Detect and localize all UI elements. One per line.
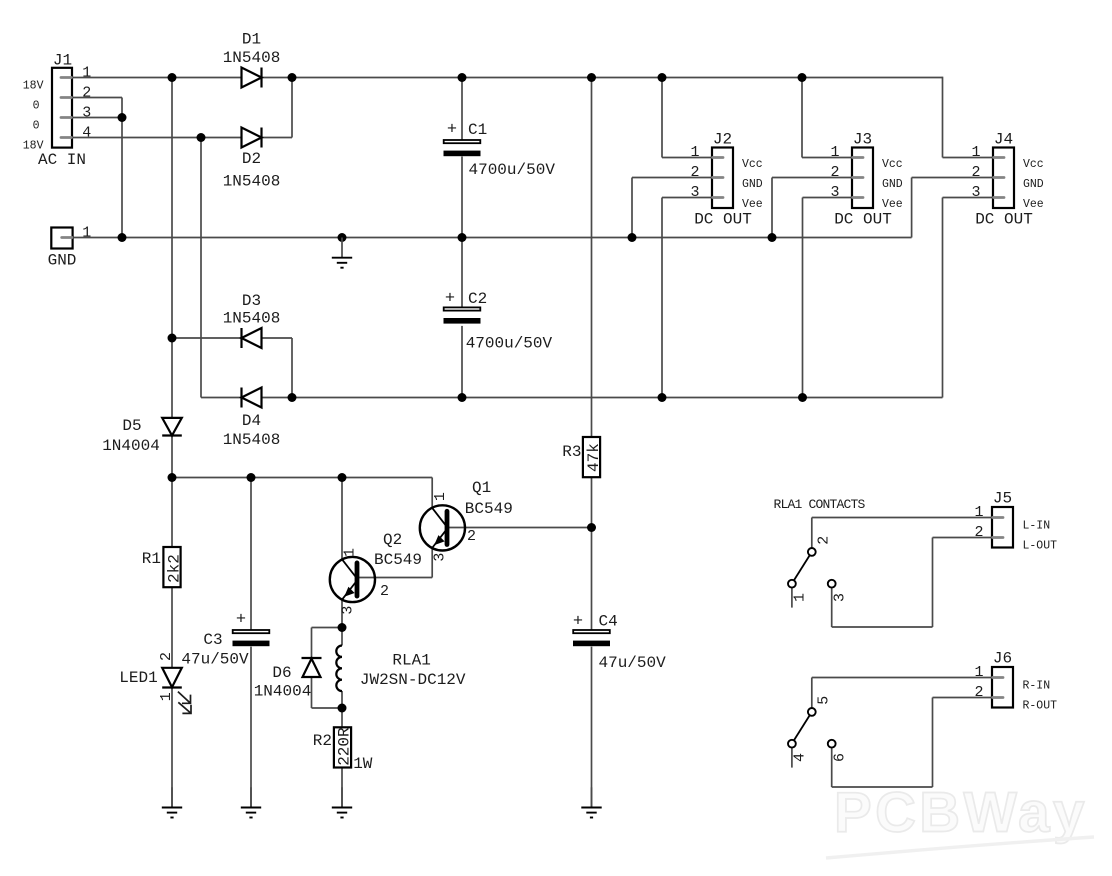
svg-text:1W: 1W <box>353 755 373 773</box>
wire contact 3 to J5.2 <box>831 588 833 627</box>
svg-text:3: 3 <box>82 104 91 121</box>
diode D5 1N4004 <box>102 417 182 455</box>
wire C1 top <box>461 78 463 141</box>
wire D2 to node after D1 <box>262 137 293 139</box>
svg-text:0: 0 <box>33 120 40 133</box>
svg-text:GND: GND <box>742 178 763 191</box>
svg-text:R2: R2 <box>313 732 332 750</box>
svg-text:C1: C1 <box>468 121 487 139</box>
relay contact switch L pole 1 <box>788 580 796 588</box>
node ctl R1 <box>168 473 177 482</box>
svg-text:GND: GND <box>48 252 77 270</box>
node relay top <box>338 623 347 632</box>
svg-text:2: 2 <box>830 164 839 181</box>
transistor Q1 BC549 <box>420 479 513 562</box>
svg-text:Vee: Vee <box>882 198 903 211</box>
wire C4 bottom to ground <box>591 647 593 808</box>
svg-text:2: 2 <box>690 164 699 181</box>
svg-text:R1: R1 <box>142 550 161 568</box>
svg-text:+: + <box>236 611 246 630</box>
wire C2 top from GND bus <box>461 238 463 308</box>
wire Q1.3 to Q2.2 <box>357 577 432 579</box>
svg-text:1: 1 <box>690 144 699 161</box>
svg-text:BC549: BC549 <box>465 500 513 518</box>
svg-text:4: 4 <box>82 124 91 141</box>
svg-text:DC OUT: DC OUT <box>975 211 1033 229</box>
resistor R3 47k <box>562 437 603 477</box>
svg-text:1: 1 <box>974 664 983 681</box>
node R3/C4 <box>587 523 596 532</box>
svg-text:+: + <box>447 121 457 140</box>
node GND symbol <box>338 233 347 242</box>
resistor R1 2k2 <box>142 547 184 587</box>
svg-text:L-IN: L-IN <box>1023 520 1051 533</box>
svg-text:6: 6 <box>832 753 849 762</box>
svg-text:5: 5 <box>815 696 832 705</box>
svg-text:D6: D6 <box>272 664 291 682</box>
svg-text:D5: D5 <box>122 417 141 435</box>
wire C1 bottom to GND bus <box>461 157 463 238</box>
svg-text:GND: GND <box>1023 178 1044 191</box>
svg-text:3: 3 <box>971 184 980 201</box>
svg-text:1N5408: 1N5408 <box>223 310 281 328</box>
svg-text:Q2: Q2 <box>383 531 402 549</box>
wire D5 cathode to control rail <box>171 436 173 478</box>
svg-text:1: 1 <box>432 492 449 501</box>
svg-text:47u/50V: 47u/50V <box>599 654 667 672</box>
svg-text:4700u/50V: 4700u/50V <box>466 335 553 353</box>
svg-text:J5: J5 <box>993 490 1012 508</box>
svg-text:2k2: 2k2 <box>166 554 184 583</box>
diode D1 1N5408 <box>223 31 281 88</box>
svg-text:2: 2 <box>971 164 980 181</box>
wire D3 row <box>172 337 242 339</box>
svg-text:0: 0 <box>33 100 40 113</box>
wire Q1 emitter down <box>431 548 433 577</box>
wire J1.2 to junction <box>72 97 122 99</box>
svg-text:+: + <box>573 613 583 632</box>
node relay bottom <box>338 704 347 713</box>
svg-text:D3: D3 <box>242 292 261 310</box>
svg-text:1: 1 <box>791 593 808 602</box>
node D1-D2 <box>288 73 297 82</box>
PCBWay watermark <box>826 781 1094 859</box>
wire C2 bottom to Vee bus <box>461 326 463 398</box>
wire contact 1 lead <box>791 588 793 608</box>
svg-text:R-IN: R-IN <box>1023 680 1051 693</box>
svg-text:JW2SN-DC12V: JW2SN-DC12V <box>360 671 466 689</box>
ground under C4 <box>581 787 601 817</box>
svg-text:2: 2 <box>467 528 476 545</box>
wire D6 top link <box>312 627 343 629</box>
wire contact 4 lead <box>791 748 793 768</box>
wire J2 GND to bus <box>632 177 712 179</box>
wire raw rail x=591 to R3 <box>591 78 593 438</box>
node D4 <box>288 393 297 402</box>
wire J4 Vcc feed <box>942 77 944 158</box>
svg-text:1N5408: 1N5408 <box>223 431 281 449</box>
svg-text:4: 4 <box>791 753 808 762</box>
wire R2 bottom to ground <box>341 768 343 808</box>
connector GND <box>48 224 92 269</box>
svg-text:47u/50V: 47u/50V <box>181 651 249 669</box>
wire J3 Vcc feed <box>801 78 803 158</box>
wire Vee bus left to D4 <box>201 397 242 399</box>
ground under C3 <box>241 787 261 817</box>
svg-text:220R: 220R <box>335 727 353 766</box>
node J2 Vee <box>658 393 667 402</box>
wire relay node to R2 <box>341 708 343 727</box>
svg-text:1N4004: 1N4004 <box>102 437 160 455</box>
diode D4 1N5408 <box>223 388 281 450</box>
wire J3 GND to bus <box>772 177 852 179</box>
svg-text:D4: D4 <box>242 412 261 430</box>
svg-text:1N4004: 1N4004 <box>254 683 312 701</box>
wire J6.1 to contact 5 <box>812 677 992 679</box>
ground at GND bus <box>332 238 352 268</box>
svg-text:C4: C4 <box>599 613 618 631</box>
svg-text:3: 3 <box>830 184 839 201</box>
svg-text:1: 1 <box>830 144 839 161</box>
svg-text:R-OUT: R-OUT <box>1023 700 1058 713</box>
wire Q2 pin1 feed down <box>341 478 343 560</box>
wire C3 top <box>250 478 252 631</box>
wire R1 top <box>171 478 173 548</box>
node ctl Q2 <box>338 473 347 482</box>
svg-text:Q1: Q1 <box>472 479 491 497</box>
svg-text:2: 2 <box>82 84 91 101</box>
diode D6 1N4004 <box>254 658 322 701</box>
svg-text:3: 3 <box>432 553 449 562</box>
wire C3 bottom to ground <box>250 647 252 808</box>
wire top +rail D1 to J4 corner <box>262 77 943 79</box>
svg-text:2: 2 <box>380 583 389 600</box>
svg-text:1: 1 <box>971 144 980 161</box>
wire R1 to LED1 <box>171 587 173 668</box>
svg-text:3: 3 <box>340 606 357 615</box>
svg-text:DC OUT: DC OUT <box>694 211 752 229</box>
svg-text:J1: J1 <box>53 51 72 69</box>
capacitor C2 4700u/50V <box>444 290 553 353</box>
wire contact arm L <box>794 555 810 580</box>
svg-text:1N5408: 1N5408 <box>223 173 281 191</box>
svg-text:R3: R3 <box>562 443 581 461</box>
wire contact 6 to J6.2 <box>831 748 833 787</box>
wire LED1 to ground <box>171 688 173 808</box>
node J2 Vcc <box>658 73 667 82</box>
wire Vee bus D4 to J4 <box>262 397 943 399</box>
svg-text:LED1: LED1 <box>119 669 157 687</box>
node J1.2-3 <box>118 113 127 122</box>
connector J1 AC IN <box>23 51 92 169</box>
wire Q1 pin2 to R3 node <box>448 527 592 529</box>
svg-text:D1: D1 <box>242 31 261 49</box>
relay contact switch R pole 6 <box>828 740 836 748</box>
svg-text:2: 2 <box>974 524 983 541</box>
svg-text:1: 1 <box>974 504 983 521</box>
wire Q1 base feed down <box>431 478 433 508</box>
svg-text:47k: 47k <box>585 443 603 472</box>
svg-text:18V: 18V <box>23 80 44 93</box>
relay contact switch R pole 4 <box>788 740 796 748</box>
wire J5.1 to contact 2 <box>812 517 992 519</box>
node C1/C2 <box>458 233 467 242</box>
svg-text:J6: J6 <box>993 650 1012 668</box>
wire D3 to D4 node <box>262 337 293 339</box>
node ctl C3 <box>247 473 256 482</box>
svg-text:RLA1 CONTACTS: RLA1 CONTACTS <box>774 497 866 512</box>
transistor Q2 BC549 <box>330 531 422 615</box>
svg-text:PCBWay: PCBWay <box>834 781 1088 844</box>
svg-text:J4: J4 <box>994 131 1013 149</box>
wire J1.3 to junction <box>72 117 122 119</box>
node raw rail <box>587 73 596 82</box>
connector J3 DC OUT <box>830 131 902 229</box>
capacitor C1 4700u/50V <box>444 121 556 180</box>
capacitor C4 47u/50V <box>573 613 666 673</box>
ground under LED1 <box>162 787 182 817</box>
svg-text:1: 1 <box>82 64 91 81</box>
wire contact arm R <box>794 715 810 740</box>
svg-text:D2: D2 <box>242 150 261 168</box>
wire left rail x=172 down to D5 <box>171 78 173 418</box>
svg-text:3: 3 <box>832 593 849 602</box>
svg-text:Vcc: Vcc <box>1023 158 1044 171</box>
node +rail/left <box>168 73 177 82</box>
connector J6 <box>974 650 1057 713</box>
wire D6 bottom link <box>311 677 313 708</box>
svg-text:4700u/50V: 4700u/50V <box>469 161 556 179</box>
connector J2 DC OUT <box>690 131 762 229</box>
diode D3 1N5408 <box>223 292 281 348</box>
relay contact switch L pole 2 <box>808 548 816 556</box>
svg-text:Vee: Vee <box>742 198 763 211</box>
svg-text:C3: C3 <box>203 631 222 649</box>
node J1.4 branch <box>197 133 206 142</box>
node GND bus left <box>118 233 127 242</box>
wire relay coil top lead <box>341 628 343 646</box>
svg-text:1N5408: 1N5408 <box>223 49 281 67</box>
svg-text:GND: GND <box>882 178 903 191</box>
wire Q2 emitter to relay node <box>341 600 343 628</box>
svg-text:J3: J3 <box>853 131 872 149</box>
svg-text:1: 1 <box>158 692 175 701</box>
wire x=201 J1.4 branch down to D4 <box>200 138 202 398</box>
svg-text:Vcc: Vcc <box>882 158 903 171</box>
wire J2 Vee to bus <box>662 197 712 199</box>
svg-text:RLA1: RLA1 <box>392 651 430 669</box>
svg-text:L-OUT: L-OUT <box>1023 540 1058 553</box>
relay coil RLA1 JW2SN-DC12V <box>336 646 466 692</box>
svg-text:3: 3 <box>690 184 699 201</box>
capacitor C3 47u/50V <box>181 611 269 669</box>
svg-text:AC IN: AC IN <box>38 151 86 169</box>
svg-text:J2: J2 <box>713 131 732 149</box>
ground under R2 <box>332 787 352 817</box>
node C2 Vee <box>458 393 467 402</box>
svg-text:2: 2 <box>158 652 175 661</box>
wire J1.4 rail to D2 <box>72 137 242 139</box>
wire J4 Vee to bus <box>943 197 994 199</box>
svg-text:BC549: BC549 <box>374 551 422 569</box>
svg-text:18V: 18V <box>23 140 44 153</box>
node C1 <box>458 73 467 82</box>
node J2 GND <box>628 233 637 242</box>
node J3 GND <box>768 233 777 242</box>
LED LED1 <box>119 652 191 713</box>
wire J4 GND to bus <box>912 177 993 179</box>
node J3 Vcc <box>798 73 807 82</box>
svg-text:+: + <box>445 290 455 309</box>
svg-text:Vee: Vee <box>1023 198 1044 211</box>
node D3 <box>168 334 177 343</box>
wire top +rail J1.1 to D1 <box>72 77 242 79</box>
wire control rail <box>172 477 432 479</box>
svg-text:1: 1 <box>342 548 359 557</box>
relay contact switch L pole 3 <box>828 580 836 588</box>
node J3 Vee <box>798 393 807 402</box>
wire J2 Vcc feed <box>661 78 663 158</box>
diode D2 1N5408 <box>223 128 281 191</box>
connector J4 DC OUT <box>971 131 1043 229</box>
wire node to C4 top <box>591 528 593 631</box>
wire J3 Vee to bus <box>803 197 853 199</box>
svg-text:1: 1 <box>82 224 91 241</box>
wire relay coil bottom lead <box>341 691 343 708</box>
svg-text:DC OUT: DC OUT <box>834 211 892 229</box>
svg-text:2: 2 <box>974 684 983 701</box>
R2 resistor 220R 1W <box>313 727 373 773</box>
svg-text:C2: C2 <box>468 290 487 308</box>
relay contact switch R pole 5 <box>808 708 816 716</box>
wire GND bus <box>73 237 912 239</box>
svg-text:Vcc: Vcc <box>742 158 763 171</box>
wire R3 bottom to node <box>591 477 593 527</box>
svg-text:2: 2 <box>815 536 832 545</box>
connector J5 <box>974 490 1057 553</box>
